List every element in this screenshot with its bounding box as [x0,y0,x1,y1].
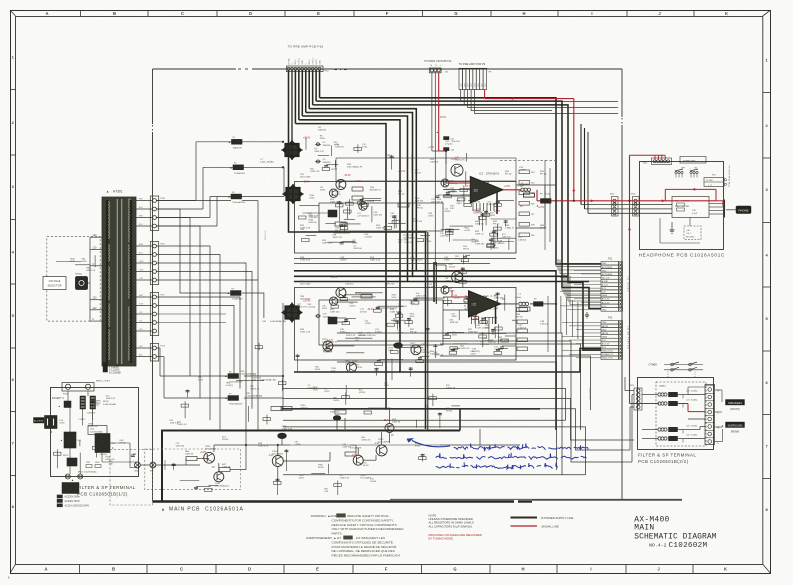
svg-text:1/4W 560: 1/4W 560 [421,352,430,354]
svg-text:+17/35: +17/35 [428,287,436,289]
svg-text:TR15: TR15 [205,446,211,448]
switch SW501 [76,277,88,290]
svg-text:10/50: 10/50 [299,477,305,479]
svg-text:47/35: 47/35 [324,391,330,393]
svg-text:1/4W 560: 1/4W 560 [342,447,351,449]
svg-text:RED: RED [139,216,144,218]
svg-text:3300/35: 3300/35 [323,145,332,147]
svg-text:10/35: 10/35 [428,216,434,218]
svg-text:MC50: MC50 [103,401,109,403]
svg-text:NF(1): NF(1) [309,59,311,64]
svg-text:DATA: DATA [602,335,608,338]
svg-text:A.(TUNER): A.(TUNER) [602,266,613,269]
svg-text:INDICATE SAFETY CRITICAL,: INDICATE SAFETY CRITICAL, [347,514,390,518]
svg-text:3300/35: 3300/35 [318,130,327,132]
svg-text:R25: R25 [531,193,534,195]
svg-text:+C15 100/26: +C15 100/26 [410,260,423,262]
svg-text:AC220V 50Hz: AC220V 50Hz [65,496,81,499]
svg-text:1/4W 560: 1/4W 560 [358,335,367,337]
svg-text:0.047(J): 0.047(J) [473,351,481,353]
svg-text:G: G [454,11,457,16]
svg-text:▲: ▲ [50,431,53,434]
svg-text:+2.2V: +2.2V [494,211,501,213]
svg-text:E: E [317,11,320,16]
svg-text:470/16: 470/16 [301,232,308,234]
svg-text:1/4W 2.2K: 1/4W 2.2K [346,335,356,337]
svg-text:1/4W 1K: 1/4W 1K [222,467,231,469]
svg-text:R29: R29 [531,235,534,237]
svg-text:C1026A501C: C1026A501C [690,252,725,257]
svg-text:TR12: TR12 [378,439,384,441]
svg-text:0.001/400AC (M): 0.001/400AC (M) [260,379,276,382]
svg-text:1/4W 100: 1/4W 100 [367,335,376,337]
svg-text:47/100: 47/100 [360,312,367,314]
svg-text:100/16: 100/16 [397,332,404,334]
dashed transistor enclosure [145,449,241,490]
svg-text:HT301: HT301 [113,190,123,194]
svg-text:H: H [521,567,524,572]
svg-text:0.5A(L.T): 0.5A(L.T) [505,227,514,230]
svg-text:+47/50: +47/50 [365,323,372,325]
channel amplifier block outlines [295,182,517,254]
svg-text:1/4W 2.2K: 1/4W 2.2K [416,295,426,297]
output stage bias wiring [156,464,200,466]
svg-text:ALL CAPACITORS IN µF 50WV(K): ALL CAPACITORS IN µF 50WV(K) [429,524,472,528]
bridge rectifier D3 [282,303,303,323]
svg-text:▲: ▲ [225,374,228,378]
svg-text:GND: GND [302,60,304,65]
svg-text:2SD74603(L.P): 2SD74603(L.P) [347,167,362,169]
svg-text:1/4W 4.7K: 1/4W 4.7K [460,348,470,350]
svg-text:→: → [689,168,691,170]
svg-text:BRN: BRN [139,244,144,246]
svg-text:33/50: 33/50 [320,138,326,140]
svg-text:2SD74603(L.P): 2SD74603(L.P) [322,342,337,344]
svg-text:4.7µF: 4.7µF [692,213,698,215]
svg-text:1/4W 36: 1/4W 36 [185,454,194,456]
svg-text:: SIGNAL LINE: : SIGNAL LINE [540,524,559,528]
svg-text:R: R [718,389,720,393]
filter and speaker terminal PCB 1/2 [51,388,139,477]
svg-text:10/50: 10/50 [444,260,450,262]
svg-text:+47/50: +47/50 [464,230,471,232]
svg-text:C102602M: C102602M [669,542,708,550]
svg-text:W1A: W1A [134,470,139,473]
connector P1 column with wire colour labels [150,196,158,231]
svg-text:0.01(K): 0.01(K) [691,425,698,427]
small-signal transistors [451,164,463,176]
svg-text:SELECTOR: SELECTOR [48,284,62,288]
svg-text:NF(2): NF(2) [295,59,297,64]
svg-text:47/35: 47/35 [70,261,76,263]
svg-text:10/50: 10/50 [59,423,65,425]
svg-text:1/4W 1.2K: 1/4W 1.2K [88,426,98,428]
svg-text:R G L: R G L [431,65,443,67]
svg-text:T5A/250V: T5A/250V [87,412,96,415]
svg-text:+47/50: +47/50 [295,444,302,446]
svg-text:-25.4V: -25.4V [383,420,390,422]
svg-text:▲: ▲ [228,195,231,199]
svg-text:470/16: 470/16 [375,332,382,334]
svg-text:FR 1Ω: FR 1Ω [417,208,423,210]
svg-text:FR 1Ω: FR 1Ω [363,465,369,467]
main PCB outline [153,68,623,70]
svg-text:33/50: 33/50 [446,280,452,282]
svg-text:SCHEMATIC DIAGRAM: SCHEMATIC DIAGRAM [634,533,716,542]
svg-text:R: R [718,426,720,430]
svg-text:HEADPHONE PCB: HEADPHONE PCB [639,252,689,257]
svg-text:+5/35: +5/35 [470,354,476,356]
svg-text:33/50: 33/50 [477,212,483,214]
svg-text:1/4W 560: 1/4W 560 [475,244,485,246]
svg-text:FR 1Ω: FR 1Ω [463,249,469,251]
fuse F6 [228,374,239,379]
svg-text:□ ONLY: □ ONLY [78,418,86,421]
feedback resistor ladders [519,170,530,174]
svg-text:TR18: TR18 [360,475,366,477]
svg-text:0.01(K): 0.01(K) [691,399,698,401]
svg-text:5V LED: 5V LED [706,180,713,182]
svg-text:T1.6A/250V: T1.6A/250V [232,298,244,301]
svg-text:FR 1Ω: FR 1Ω [540,174,547,176]
svg-text:470/16: 470/16 [446,411,453,413]
svg-text:1/4W 4.7K: 1/4W 4.7K [486,306,496,308]
svg-text:470/16: 470/16 [498,243,505,245]
svg-text:10/50: 10/50 [485,327,491,329]
svg-text:DTC144ES: DTC144ES [378,442,390,444]
svg-text:0V: 0V [212,467,215,469]
svg-text:TR14: TR14 [272,451,278,453]
svg-text:1/4W 4.7K: 1/4W 4.7K [86,270,96,272]
svg-text:VOLTAGE: VOLTAGE [49,279,61,283]
svg-text:1/4W 2.2K: 1/4W 2.2K [333,237,343,239]
headphone PCB outline [640,162,724,250]
svg-text:NO.4-2: NO.4-2 [649,542,667,548]
svg-text:B: B [112,567,115,572]
svg-text:+0.9V: +0.9V [200,452,207,454]
svg-text:1/4W 8.2K: 1/4W 8.2K [300,260,311,262]
svg-text:R28: R28 [531,225,534,227]
svg-text:1/4W 100: 1/4W 100 [330,312,340,314]
svg-text:OUT(1): OUT(1) [312,58,314,65]
svg-text:▲: ▲ [71,478,74,482]
svg-text:RUN: RUN [95,462,100,464]
headphone PCB internals [652,158,672,165]
svg-text:+23.9V: +23.9V [367,201,375,203]
svg-text:: B POWER SUPPLY LINE: : B POWER SUPPLY LINE [540,516,573,520]
svg-text:AC OUTLET: AC OUTLET [34,420,43,423]
svg-text:3300/35: 3300/35 [323,162,332,164]
svg-text:DTC124ES: DTC124ES [350,448,362,450]
svg-text:-0.6V: -0.6V [352,361,358,363]
svg-text:1/4W 2.2K: 1/4W 2.2K [487,204,497,206]
svg-text:1/4W 2.2K: 1/4W 2.2K [361,440,371,442]
svg-text:3.3K: 3.3K [331,370,336,372]
svg-text:WARNING: ▲AND: WARNING: ▲AND [311,514,338,518]
svg-text:FILTER & SP TERMINAL: FILTER & SP TERMINAL [77,485,136,490]
svg-text:PCB C1026501B(1/2): PCB C1026501B(1/2) [77,492,128,497]
svg-text:33/50: 33/50 [471,241,477,243]
svg-text:2SC1740S: 2SC1740S [300,284,311,286]
voltage selector label box [43,277,66,290]
fuse F2 [233,165,244,170]
svg-text:+47/50: +47/50 [454,297,461,299]
svg-text:110: 110 [93,307,97,310]
svg-text:IC1: IC1 [479,172,484,176]
svg-text:1/4W 4.7K: 1/4W 4.7K [314,151,324,153]
svg-text:VACIN: VACIN [602,332,609,335]
svg-text:C: C [180,567,183,572]
svg-text:▲: ▲ [225,396,228,400]
svg-text:470/16: 470/16 [449,266,456,268]
svg-text:+2.3V: +2.3V [331,169,338,171]
svg-text:TO PRE AMP PCB P10: TO PRE AMP PCB P10 [288,45,324,49]
svg-text:P1S: P1S [161,244,166,246]
svg-text:470/16: 470/16 [222,439,229,441]
svg-text:PARTS.: PARTS. [332,531,343,535]
svg-text:0.047(J): 0.047(J) [300,408,308,410]
svg-text:T4A/250V: T4A/250V [233,146,243,149]
svg-text:C: C [181,11,184,16]
svg-text:(FRONT): (FRONT) [730,408,740,411]
B+ power supply thick bus from P10 [319,70,321,98]
voltage selector dashed enclosure [47,237,100,322]
svg-text:▲: ▲ [60,439,63,442]
svg-text:A GND: A GND [602,280,609,283]
svg-text:33/50: 33/50 [490,215,496,217]
svg-text:H: H [522,11,525,16]
svg-text:120: 120 [93,297,98,300]
svg-text:47/35: 47/35 [309,198,315,200]
svg-text:POUR MAINTENIR LE DEGRÉ DE SÉC: POUR MAINTENIR LE DEGRÉ DE SÉCURITÉ [332,544,397,549]
svg-text:K: K [724,567,727,572]
svg-text:1/4W 2.2K: 1/4W 2.2K [370,260,381,262]
svg-text:+0.5V: +0.5V [538,207,545,209]
channel-2 output to rear filter [501,303,518,305]
svg-text:FR 1Ω: FR 1Ω [505,174,512,176]
svg-text:1/4W 4.7K: 1/4W 4.7K [250,389,260,391]
svg-text:-1.9V: -1.9V [374,443,380,445]
svg-text:1/4W 1K: 1/4W 1K [430,162,439,164]
svg-text:3.3µH: 3.3µH [515,297,521,299]
svg-text:DTC144ES: DTC144ES [272,454,284,456]
svg-text:1/4W 2.2K: 1/4W 2.2K [106,398,116,400]
svg-text:1/4W 100: 1/4W 100 [404,242,413,244]
svg-text:1/4W 560: 1/4W 560 [480,344,489,346]
dashed speaker link [110,449,153,505]
svg-text:MAIN: MAIN [634,524,654,533]
smoothing capacitors C4 C5 C19 [317,143,320,146]
svg-text:1/4W 620: 1/4W 620 [468,332,478,334]
svg-text:+2.7V: +2.7V [327,340,334,342]
svg-text:+47 100/6.3: +47 100/6.3 [357,216,369,218]
svg-text:MC52: MC52 [63,455,69,457]
svg-text:1/4W 2.2K: 1/4W 2.2K [340,477,350,479]
svg-text:1/4W 4.7K: 1/4W 4.7K [455,159,465,161]
svg-text:100/16: 100/16 [340,260,347,262]
svg-text:1/4W 560: 1/4W 560 [440,236,449,238]
svg-text:R23: R23 [531,172,534,174]
svg-text:TO VFD PCB W11: TO VFD PCB W11 [728,165,730,188]
svg-text:GND(+15V): GND(+15V) [602,358,613,360]
svg-text:▲: ▲ [230,166,233,170]
svg-text:MP16-□ ONLY: MP16-□ ONLY [96,380,111,383]
svg-text:0V: 0V [391,435,394,437]
svg-text:▲: ▲ [161,507,165,512]
headphone feed wires [580,124,582,205]
svg-text:1/4W 100: 1/4W 100 [330,412,340,414]
svg-text:▲: ▲ [227,291,230,295]
svg-text:T500mA/250V: T500mA/250V [229,381,243,384]
svg-text:33/25: 33/25 [320,190,326,192]
svg-text:33/50: 33/50 [315,369,321,371]
svg-text:BY TUNING MODE.: BY TUNING MODE. [429,536,454,540]
svg-text:RED: RED [139,199,144,201]
svg-text:TR16: TR16 [215,483,221,485]
dashed line B2 [500,160,556,162]
svg-text:+47/50: +47/50 [425,241,432,243]
svg-text:-2.4V: -2.4V [355,181,361,183]
svg-text:0.01(K): 0.01(K) [691,390,698,392]
svg-text:100/16: 100/16 [370,481,377,483]
svg-text:BR ONLY: BR ONLY [686,236,695,238]
svg-text:+34.4V: +34.4V [398,171,406,173]
ground symbol SP [586,312,588,315]
fuse F7 [228,396,239,401]
svg-text:AVERTISSEMENT: ▲ ET: AVERTISSEMENT: ▲ ET [306,536,341,540]
svg-text:1000/6.3: 1000/6.3 [345,284,354,286]
svg-text:AC110-120V/220-240V: AC110-120V/220-240V [65,504,90,507]
svg-text:+0.9V: +0.9V [449,271,456,273]
svg-text:4.7µ/50: 4.7µ/50 [445,144,453,146]
svg-text:33/50: 33/50 [322,308,328,310]
svg-text:10/50: 10/50 [431,202,437,204]
svg-text:TR11: TR11 [345,361,351,363]
svg-text:33/50: 33/50 [456,203,462,205]
svg-text:1/4W 100: 1/4W 100 [335,146,344,148]
svg-text:T6.3A/250V: T6.3A/250V [234,172,246,175]
svg-text:1/4W 2.2: 1/4W 2.2 [475,234,485,236]
svg-text:-0.7V: -0.7V [466,186,472,188]
svg-text:GND: GND [319,60,321,65]
svg-text:47/35: 47/35 [410,303,416,305]
svg-text:TO PRE AMP PCB P9: TO PRE AMP PCB P9 [459,62,486,66]
svg-text:ORG: ORG [139,261,144,263]
power transformer HT301 [102,197,136,366]
fuse F4 [231,291,242,296]
svg-text:100/16: 100/16 [333,400,340,402]
svg-text:FB101: FB101 [330,409,337,411]
svg-text:A 4.2V: A 4.2V [602,284,609,287]
svg-text:3.3K: 3.3K [324,491,329,493]
svg-text:+0.5V: +0.5V [504,186,511,188]
svg-text:3.3K: 3.3K [355,340,360,342]
svg-text:F: F [386,11,389,16]
svg-text:1/4W 6.7K: 1/4W 6.7K [258,446,269,448]
svg-text:1/4W 2.2K: 1/4W 2.2K [403,237,413,239]
svg-text:BLU: BLU [139,253,143,255]
svg-text:0.047(J): 0.047(J) [226,385,234,387]
line style legend [511,517,538,519]
svg-text:OTHER: OTHER [649,364,658,367]
svg-text:C24: C24 [686,399,689,401]
svg-text:FR 1Ω: FR 1Ω [93,405,99,407]
svg-text:1/4W 2.2K: 1/4W 2.2K [310,171,320,173]
transformer tap wires [90,236,102,238]
svg-text:▲: ▲ [228,140,231,144]
svg-text:+2.3V: +2.3V [331,277,338,279]
svg-text:0.047(J): 0.047(J) [308,388,316,390]
svg-text:47/35: 47/35 [415,446,421,448]
svg-text:1/4W 560: 1/4W 560 [484,341,493,343]
fuse F1 [232,139,243,144]
svg-text:C24: C24 [686,425,689,427]
svg-text:BLU: BLU [139,224,143,226]
svg-text:▲: ▲ [112,447,115,450]
svg-text:33/50: 33/50 [452,316,458,318]
svg-text:1/4W 2.2K: 1/4W 2.2K [252,377,262,379]
svg-text:I: I [591,11,592,16]
svg-text:0.0047/400AC: 0.0047/400AC [90,431,103,434]
bridge rectifier D2 [283,184,304,204]
svg-text:CR2: CR2 [246,393,251,395]
svg-text:1/4W 100: 1/4W 100 [494,349,503,351]
svg-text:1/4W 100: 1/4W 100 [373,214,382,216]
svg-text:FR 1Ω: FR 1Ω [437,202,443,204]
svg-text:3.3µH: 3.3µH [518,186,524,188]
svg-text:P1G: P1G [161,346,166,348]
IC1 pin stubs [472,203,474,211]
svg-text:A97(S9L.T): A97(S9L.T) [370,189,381,192]
svg-text:FR 1Ω: FR 1Ω [335,230,341,232]
fuse F5 [231,194,242,199]
svg-text:1/4W 2.2K: 1/4W 2.2K [105,459,115,461]
resistor bodies [186,457,197,461]
svg-text:0.047(J): 0.047(J) [518,240,526,242]
svg-text:110: 110 [93,247,97,250]
svg-text:B: B [113,11,116,16]
svg-text:1/4W 4.7K: 1/4W 4.7K [170,423,180,425]
svg-text:YCL: YCL [139,312,143,314]
svg-text:C26 (L 047(2): C26 (L 047(2) [590,387,592,400]
svg-text:PIÈCES RECOMMANDÉES PAR LE FAB: PIÈCES RECOMMANDÉES PAR LE FABRICANT [332,553,401,558]
svg-text:100/16: 100/16 [349,306,356,308]
svg-text:+25.4V: +25.4V [303,301,311,303]
svg-text:AC 4.2V: AC 4.2V [602,298,610,301]
dashed regulator box IC2 [465,296,497,309]
svg-text:1/4W 2.7K: 1/4W 2.7K [282,429,293,431]
wires into W14 [622,439,634,441]
svg-text:470/16: 470/16 [449,290,456,292]
svg-text:0.001/400AC(M): 0.001/400AC(M) [246,395,262,398]
svg-text:FR 1Ω: FR 1Ω [455,259,461,261]
svg-text:YLW: YLW [139,278,143,280]
svg-text:+47/50: +47/50 [474,202,481,204]
svg-text:▲: ▲ [487,180,490,184]
svg-text:1/2: 1/2 [473,188,478,192]
connector row feed wires [560,262,601,264]
svg-text:YCL: YCL [139,321,143,323]
svg-text:1/4W 100: 1/4W 100 [176,446,185,448]
svg-text:I: I [590,567,591,572]
svg-text:47/35: 47/35 [362,147,368,149]
svg-text:T500mA/250V: T500mA/250V [232,201,246,204]
svg-text:P1B: P1B [161,198,166,200]
svg-text:0V: 0V [520,206,523,208]
svg-text:3.3K: 3.3K [109,464,114,466]
svg-text:1/4W 4.7K: 1/4W 4.7K [446,387,456,389]
svg-text:R26: R26 [531,204,534,206]
